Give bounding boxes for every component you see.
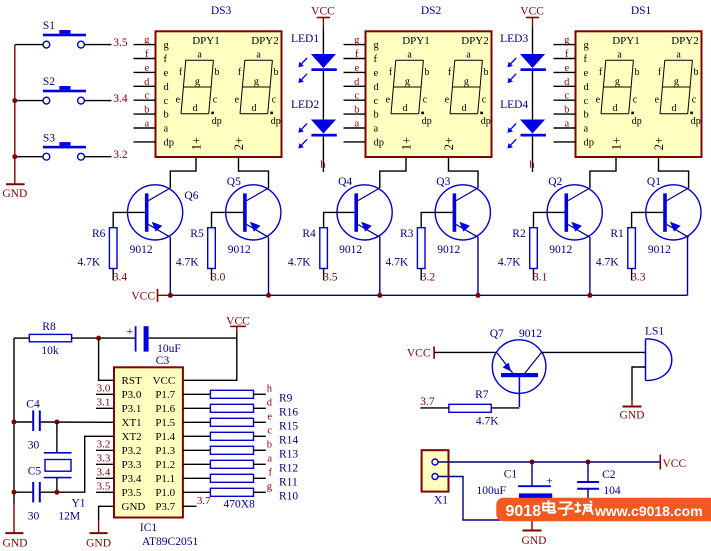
svg-text:f: f <box>584 54 588 65</box>
svg-text:9012: 9012 <box>437 244 460 256</box>
wire LED3 to LED4 <box>532 71 534 120</box>
svg-text:1+: 1+ <box>609 137 623 150</box>
svg-text:P1.4: P1.4 <box>155 431 175 443</box>
svg-text:104: 104 <box>603 485 621 497</box>
svg-text:Q5: Q5 <box>227 176 241 188</box>
svg-text:XT1: XT1 <box>122 417 142 429</box>
resistor R8 10k <box>29 321 71 357</box>
transistor Q6 9012 PNP <box>128 185 199 256</box>
svg-text:R3: R3 <box>400 228 414 240</box>
svg-text:DPY2: DPY2 <box>251 35 279 47</box>
svg-text:b: b <box>635 67 640 78</box>
svg-text:Q4: Q4 <box>338 176 352 188</box>
wire RST node to RST pin <box>99 338 114 380</box>
svg-text:b: b <box>484 67 489 78</box>
wire P1.4 to R14 <box>183 435 210 437</box>
svg-text:b: b <box>144 105 149 116</box>
resistor R3 4.7K <box>386 228 425 269</box>
svg-text:R4: R4 <box>302 228 316 240</box>
svg-text:3.3: 3.3 <box>631 271 646 283</box>
svg-text:e: e <box>564 63 569 74</box>
svg-text:C4: C4 <box>26 399 40 411</box>
wire VCC to Q7 emitter <box>434 351 497 353</box>
svg-text:a: a <box>256 50 261 61</box>
wire XT1 net <box>41 421 114 423</box>
crystal Y1 12M <box>44 453 86 523</box>
wire Q2 emitter to VCC rail <box>589 237 591 295</box>
LED LED3 <box>507 54 546 83</box>
svg-text:d: d <box>267 398 273 409</box>
svg-text:g: g <box>354 35 360 46</box>
svg-text:3.2: 3.2 <box>113 149 128 161</box>
svg-text:d: d <box>252 103 257 114</box>
svg-text:4.7K: 4.7K <box>596 257 619 269</box>
display block DS1 <box>554 5 702 157</box>
wire display pin to Q1 collector <box>659 157 689 188</box>
svg-text:P1.6: P1.6 <box>155 403 175 415</box>
svg-text:9012: 9012 <box>648 244 671 256</box>
VCC port above LED1 <box>311 6 335 28</box>
capacitor C4 30 <box>26 399 40 452</box>
svg-text:e: e <box>445 95 450 106</box>
svg-text:h: h <box>320 159 326 171</box>
svg-text:C1: C1 <box>504 469 518 481</box>
wire P1.7 to R9 <box>183 393 210 395</box>
svg-text:h: h <box>529 159 535 171</box>
svg-text:DPY2: DPY2 <box>461 35 489 47</box>
svg-text:+: + <box>127 324 134 338</box>
resistor R11 470 <box>210 474 253 482</box>
svg-text:b: b <box>354 105 359 116</box>
svg-text:R8: R8 <box>42 321 56 333</box>
svg-text:a: a <box>197 50 202 61</box>
svg-text:9012: 9012 <box>549 244 572 256</box>
svg-text:c: c <box>272 95 277 106</box>
svg-text:c: c <box>564 91 569 102</box>
resistor R6 4.7K <box>78 228 117 269</box>
svg-text:12M: 12M <box>58 511 80 523</box>
svg-text:9012: 9012 <box>519 328 542 340</box>
wire R6 bottom stub <box>112 269 114 281</box>
wire X1 pin1 to VCC rail <box>438 461 660 463</box>
svg-text:R10: R10 <box>279 490 298 502</box>
wire Q1 base to R1 <box>632 212 664 227</box>
svg-text:R15: R15 <box>279 420 298 432</box>
wire C5 to XT2 <box>41 436 114 492</box>
svg-text:LED3: LED3 <box>500 33 528 45</box>
svg-text:S1: S1 <box>43 20 55 32</box>
wire P1.6 to R16 <box>183 407 210 409</box>
junction RST node <box>96 336 101 341</box>
resistor R1 4.7K <box>596 228 635 269</box>
svg-text:P3.0: P3.0 <box>122 389 142 401</box>
svg-text:AT89C2051: AT89C2051 <box>142 536 198 548</box>
transistor Q1 9012 PNP <box>646 176 701 256</box>
resistor R12 470 <box>210 460 253 468</box>
svg-text:e: e <box>386 95 391 106</box>
svg-text:d: d <box>403 103 408 114</box>
svg-text:c: c <box>423 95 428 106</box>
wire stub P3.0 <box>96 393 114 395</box>
svg-text:9012: 9012 <box>339 244 362 256</box>
svg-text:f: f <box>145 49 149 60</box>
transistor Q7 9012 PNP <box>490 328 546 407</box>
svg-text:Q1: Q1 <box>647 176 661 188</box>
svg-text:d: d <box>374 82 380 93</box>
svg-text:g: g <box>267 482 273 493</box>
junction C1 on rail <box>530 460 535 465</box>
resistor R15 470 <box>210 418 253 426</box>
svg-text:g: g <box>195 76 200 87</box>
wire VCC to LED3 <box>532 28 534 55</box>
capacitor C3 10uF electrolytic <box>127 324 181 367</box>
svg-text:30: 30 <box>28 439 40 451</box>
svg-text:Q7: Q7 <box>490 328 504 340</box>
wire C4 left <box>14 421 32 423</box>
svg-text:Q2: Q2 <box>548 176 562 188</box>
svg-text:P3.7: P3.7 <box>155 501 175 513</box>
wire LED2 to net h <box>322 137 324 173</box>
svg-text:g: g <box>144 35 150 46</box>
IC U1 AT89C2051 body <box>114 367 183 517</box>
svg-text:dp: dp <box>212 116 222 127</box>
junction Q4 emitter on rail <box>377 293 382 298</box>
wire stub P3.4 <box>96 477 114 479</box>
connector X1 <box>422 450 449 506</box>
svg-text:e: e <box>596 95 601 106</box>
wire R4 bottom stub <box>323 269 325 281</box>
svg-text:f: f <box>355 49 359 60</box>
wire VCC rail <box>170 294 688 296</box>
wire X1 pin2 to ground net <box>438 477 588 521</box>
wire R3 bottom stub <box>420 269 422 281</box>
LED LED2 <box>298 120 337 149</box>
svg-text:XT2: XT2 <box>122 431 142 443</box>
ground LS1 <box>620 407 645 422</box>
svg-text:b: b <box>584 110 589 121</box>
junction Q6 emitter on rail <box>168 293 173 298</box>
resistor R7 4.7K <box>449 389 499 427</box>
wire stub P3.2 <box>96 449 114 451</box>
junction left rail C5 <box>12 490 17 495</box>
svg-text:DS2: DS2 <box>421 5 442 17</box>
svg-text:S2: S2 <box>43 76 55 88</box>
svg-text:R7: R7 <box>475 389 489 401</box>
transistor Q5 9012 PNP <box>226 176 281 256</box>
wire R15 right stub <box>254 421 266 423</box>
svg-text:VCC: VCC <box>131 290 155 302</box>
wire C2 top <box>587 462 589 481</box>
wire R9 right stub <box>254 393 266 395</box>
wire Q3 base to R3 <box>421 212 452 227</box>
wire R16 right stub <box>254 407 266 409</box>
svg-text:g: g <box>164 40 170 51</box>
VCC port left of Q7 <box>407 346 434 359</box>
svg-text:P3.3: P3.3 <box>122 459 142 471</box>
wire Q7 base to R7 <box>491 407 519 409</box>
svg-text:VCC: VCC <box>153 375 176 387</box>
wire display pin to Q6 collector <box>170 157 196 188</box>
pushbutton switch S1 <box>43 20 86 48</box>
wire R10 right stub <box>254 491 266 493</box>
wire R7 left stub <box>420 407 449 409</box>
svg-text:R2: R2 <box>512 228 526 240</box>
svg-text:LED1: LED1 <box>291 33 319 45</box>
svg-text:C5: C5 <box>28 465 42 477</box>
banner 9018 electronics city www.c9018.com <box>496 498 711 522</box>
svg-text:GND: GND <box>122 501 146 513</box>
capacitor C1 100uF electrolytic <box>477 469 554 500</box>
svg-text:b: b <box>564 105 569 116</box>
svg-text:P1.7: P1.7 <box>155 389 175 401</box>
svg-text:DPY1: DPY1 <box>612 35 640 47</box>
wire stub P3.7 <box>183 505 197 507</box>
svg-text:X1: X1 <box>434 494 448 506</box>
svg-text:P1.5: P1.5 <box>155 417 175 429</box>
wire R13 right stub <box>254 449 266 451</box>
junction C5-Y1 <box>54 490 59 495</box>
svg-text:g: g <box>254 76 259 87</box>
svg-text:g: g <box>405 76 410 87</box>
junction S3 <box>12 154 17 159</box>
svg-text:9012: 9012 <box>228 244 251 256</box>
svg-text:DPY1: DPY1 <box>402 35 430 47</box>
svg-text:e: e <box>655 95 660 106</box>
svg-text:2+: 2+ <box>442 137 456 150</box>
svg-text:h: h <box>267 384 273 395</box>
svg-text:a: a <box>354 119 359 130</box>
svg-text:GND: GND <box>86 537 111 549</box>
junction Q2 emitter on rail <box>587 293 592 298</box>
svg-text:4.7K: 4.7K <box>176 257 199 269</box>
svg-text:IC1: IC1 <box>140 522 158 534</box>
junction left rail C4 <box>12 420 17 425</box>
svg-text:a: a <box>144 119 149 130</box>
capacitor C2 104 <box>577 469 621 497</box>
svg-text:LED2: LED2 <box>291 99 319 111</box>
svg-text:e: e <box>176 95 181 106</box>
svg-text:C3: C3 <box>156 355 170 367</box>
svg-text:DS1: DS1 <box>631 5 652 17</box>
wire C2 bottom <box>587 489 589 520</box>
svg-text:1+: 1+ <box>399 137 413 150</box>
junction C2 on rail <box>586 460 591 465</box>
svg-text:9018: 9018 <box>506 503 542 520</box>
svg-text:Q6: Q6 <box>184 190 198 202</box>
svg-text:R5: R5 <box>190 228 204 240</box>
svg-text:3.1: 3.1 <box>533 271 548 283</box>
svg-text:R12: R12 <box>279 462 298 474</box>
wire C1 top <box>531 462 533 486</box>
pushbutton switch S3 <box>43 132 86 160</box>
resistor R13 470 <box>210 446 253 454</box>
ground bottom <box>522 531 547 547</box>
wire P1.2 to R12 <box>183 463 210 465</box>
svg-text:c: c <box>164 96 169 107</box>
svg-text:a: a <box>164 124 169 135</box>
svg-text:3.4: 3.4 <box>113 93 128 105</box>
svg-text:3.0: 3.0 <box>211 271 226 283</box>
wire stub P3.5 <box>96 491 114 493</box>
wire S1 left <box>15 44 43 46</box>
svg-text:3.5: 3.5 <box>97 481 111 493</box>
wire LED4 to net h <box>532 137 534 173</box>
wire display pin to Q5 collector <box>239 157 269 188</box>
svg-text:VCC: VCC <box>663 458 687 470</box>
wire R11 right stub <box>254 477 266 479</box>
wire S2 right <box>84 100 111 102</box>
speaker LS1 <box>645 326 672 381</box>
svg-text:e: e <box>235 95 240 106</box>
svg-text:d: d <box>193 103 198 114</box>
svg-text:dp: dp <box>374 138 385 149</box>
svg-text:a: a <box>407 50 412 61</box>
wire left rail from R8 to ground <box>13 338 15 504</box>
wire S3 right <box>84 156 111 158</box>
wire P1.3 to R13 <box>183 449 210 451</box>
svg-text:GND: GND <box>620 410 645 422</box>
svg-text:a: a <box>267 454 272 465</box>
wire VCC to LED1 <box>322 28 324 55</box>
wire R12 right stub <box>254 463 266 465</box>
svg-text:e: e <box>267 412 272 423</box>
svg-text:Y1: Y1 <box>72 497 86 509</box>
wire Q3 emitter to VCC rail <box>477 237 479 295</box>
svg-text:g: g <box>564 35 570 46</box>
svg-text:3.7: 3.7 <box>197 495 211 507</box>
VCC port above C3 <box>226 315 250 332</box>
wire ground stub C1 <box>531 520 533 531</box>
svg-text:c: c <box>144 91 149 102</box>
capacitor C5 30 <box>28 465 42 522</box>
svg-text:LED4: LED4 <box>500 99 528 111</box>
svg-text:c: c <box>354 91 359 102</box>
junction Q5 emitter on rail <box>266 293 271 298</box>
wire VCC riser to IC VCC pin <box>183 333 237 381</box>
svg-text:b: b <box>274 67 279 78</box>
svg-text:10uF: 10uF <box>157 343 181 355</box>
svg-text:f: f <box>164 54 168 65</box>
svg-text:g: g <box>584 40 590 51</box>
svg-text:Q3: Q3 <box>436 176 450 188</box>
resistor R9 470 <box>210 390 253 398</box>
svg-text:R6: R6 <box>92 228 106 240</box>
resistor R4 4.7K <box>288 228 327 269</box>
svg-text:a: a <box>584 124 589 135</box>
svg-text:e: e <box>584 68 589 79</box>
svg-text:DPY1: DPY1 <box>192 35 220 47</box>
transistor Q3 9012 PNP <box>435 176 490 256</box>
resistor R5 4.7K <box>176 228 215 269</box>
wire R5 bottom stub <box>211 269 213 281</box>
wire LED1 to LED2 <box>322 71 324 120</box>
svg-text:c: c <box>692 95 697 106</box>
junction Q3 emitter on rail <box>476 293 481 298</box>
wire S2 left <box>15 100 43 102</box>
junction S2 <box>12 98 17 103</box>
svg-text:R16: R16 <box>279 406 298 418</box>
svg-text:b: b <box>374 110 379 121</box>
svg-text:3.1: 3.1 <box>97 397 111 409</box>
svg-text:P3.2: P3.2 <box>122 445 142 457</box>
svg-text:d: d <box>144 77 150 88</box>
wire R2 bottom stub <box>533 269 535 281</box>
svg-text:g: g <box>674 76 679 87</box>
svg-text:d: d <box>564 77 570 88</box>
svg-text:d: d <box>584 82 590 93</box>
svg-text:DPY2: DPY2 <box>671 35 699 47</box>
svg-text:C2: C2 <box>602 469 616 481</box>
svg-text:+: + <box>546 474 553 488</box>
wire R8 left <box>14 337 29 339</box>
svg-text:3.0: 3.0 <box>97 383 111 395</box>
svg-text:f: f <box>374 54 378 65</box>
svg-text:GND: GND <box>3 537 28 549</box>
svg-text:dp: dp <box>691 116 701 127</box>
svg-text:3.5: 3.5 <box>113 37 128 49</box>
resistor R14 470 <box>210 432 253 440</box>
svg-text:dp: dp <box>271 116 281 127</box>
svg-text:S3: S3 <box>43 132 55 144</box>
svg-text:3.7: 3.7 <box>420 396 435 408</box>
resistor R16 470 <box>210 404 253 412</box>
svg-text:100uF: 100uF <box>477 485 506 497</box>
svg-text:P3.1: P3.1 <box>122 403 142 415</box>
svg-text:3.4: 3.4 <box>97 467 111 479</box>
svg-text:470X8: 470X8 <box>224 498 256 510</box>
svg-text:R9: R9 <box>279 392 293 404</box>
wire Y1 top <box>56 422 58 453</box>
svg-text:VCC: VCC <box>311 6 335 18</box>
svg-text:3.4: 3.4 <box>113 271 128 283</box>
svg-text:P1.1: P1.1 <box>155 473 175 485</box>
svg-text:e: e <box>374 68 379 79</box>
wire S1 right <box>84 44 111 46</box>
svg-text:g: g <box>374 40 380 51</box>
svg-text:R13: R13 <box>279 448 298 460</box>
svg-text:e: e <box>354 63 359 74</box>
svg-text:VCC: VCC <box>520 6 544 18</box>
wire Q5 emitter to VCC rail <box>268 237 270 295</box>
wire Q1 emitter riser <box>688 237 689 295</box>
wire Q2 base to R2 <box>534 212 565 227</box>
svg-text:f: f <box>269 468 273 479</box>
svg-text:c: c <box>374 96 379 107</box>
svg-text:R1: R1 <box>610 228 624 240</box>
display block DS3 <box>134 5 282 157</box>
svg-text:c: c <box>584 96 589 107</box>
svg-text:c: c <box>213 95 218 106</box>
svg-text:c: c <box>482 95 487 106</box>
svg-text:2+: 2+ <box>652 137 666 150</box>
svg-text:R14: R14 <box>279 434 298 446</box>
svg-text:VCC: VCC <box>226 315 250 327</box>
svg-text:a: a <box>374 124 379 135</box>
svg-text:4.7K: 4.7K <box>476 415 499 427</box>
svg-text:P1.0: P1.0 <box>155 487 175 499</box>
wire Q7 collector to LS1 <box>542 351 646 353</box>
resistor R10 470 <box>210 488 253 496</box>
svg-text:P3.5: P3.5 <box>122 487 142 499</box>
wire R8 to C3 <box>72 337 135 339</box>
svg-text:3.3: 3.3 <box>97 453 111 465</box>
wire display pin to Q3 collector <box>449 157 479 188</box>
svg-text:d: d <box>354 77 360 88</box>
svg-text:a: a <box>564 119 569 130</box>
wire LS1 bottom to ground <box>632 367 646 400</box>
ground left rail <box>3 533 28 549</box>
wire Q4 emitter to VCC rail <box>379 237 381 295</box>
